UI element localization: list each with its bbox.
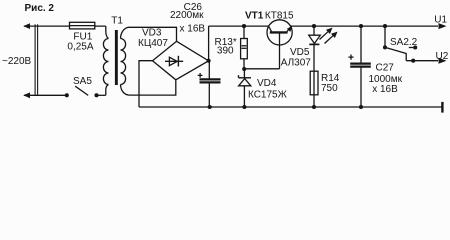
node R14 ground — [312, 105, 316, 109]
wire bridge minus to ground rail — [139, 61, 153, 107]
output U2 arrow — [439, 58, 447, 64]
wire secondary bottom to bridge — [129, 80, 176, 95]
svg-text:VT1: VT1 — [245, 10, 264, 21]
svg-text:U1: U1 — [434, 14, 447, 25]
svg-text:750: 750 — [321, 83, 338, 94]
node R13 VD4 base — [242, 67, 246, 71]
svg-text:АЛ307: АЛ307 — [281, 57, 312, 68]
svg-text:Рис. 2: Рис. 2 — [25, 3, 55, 14]
svg-text:КС175Ж: КС175Ж — [248, 90, 288, 101]
VT1 emitter arrow — [287, 26, 293, 32]
mains input arrow top — [23, 23, 30, 29]
fuse FU1 — [70, 22, 95, 29]
svg-text:T1: T1 — [111, 15, 123, 26]
wire base node — [244, 68, 280, 70]
resistor R14 — [310, 71, 318, 95]
svg-text:390: 390 — [217, 46, 234, 57]
svg-text:0,25А: 0,25А — [67, 42, 93, 53]
svg-text:C27: C27 — [376, 63, 395, 74]
transformer T1 core — [115, 30, 118, 85]
wire secondary top to bridge — [129, 27, 177, 41]
transformer T1 primary winding — [106, 26, 109, 38]
svg-text:х 16В: х 16В — [180, 24, 206, 35]
plus sign C27 — [348, 55, 353, 60]
svg-text:~220В: ~220В — [2, 56, 32, 67]
mains connector double line — [34, 24, 36, 95]
resistor R13 — [242, 24, 246, 28]
bridge rectifier VD3 — [153, 41, 209, 80]
wire top rail left — [209, 25, 269, 27]
wire to U2 — [406, 60, 438, 62]
LED arrows — [320, 30, 330, 39]
wire mains top — [24, 25, 106, 27]
svg-text:х 16В: х 16В — [372, 84, 398, 95]
node C26 ground — [208, 105, 212, 109]
svg-text:VD4: VD4 — [257, 78, 277, 89]
svg-text:КЦ407: КЦ407 — [138, 38, 168, 49]
wire mains bottom — [24, 94, 67, 96]
svg-text:VD3: VD3 — [142, 28, 162, 39]
svg-text:U2: U2 — [436, 51, 449, 62]
output U1 arrow — [439, 23, 447, 29]
plus sign C26 — [198, 73, 203, 78]
node VD4 ground — [242, 105, 246, 109]
node bridge plus — [207, 59, 211, 63]
switch SA2.2 — [383, 24, 387, 28]
wire SA5 to transformer — [97, 94, 106, 96]
svg-text:SA5: SA5 — [73, 76, 92, 87]
capacitor C26 — [208, 61, 210, 80]
wire top rail right — [291, 25, 438, 27]
svg-text:2200мк: 2200мк — [170, 10, 204, 21]
capacitor C27 — [359, 24, 363, 28]
ground rail end terminal — [441, 102, 443, 113]
ground rail — [139, 106, 442, 108]
zener diode VD4 — [243, 69, 245, 78]
svg-text:SA2.2: SA2.2 — [390, 37, 418, 48]
transistor VT1 — [267, 20, 292, 45]
transformer T1 secondary winding — [121, 39, 126, 85]
mains input arrow bottom — [23, 92, 30, 98]
bridge diode symbol — [165, 60, 183, 62]
svg-text:КТ815: КТ815 — [265, 10, 294, 21]
wire VT1 base lead — [279, 33, 281, 68]
wire bridge plus up — [208, 26, 210, 61]
switch SA5 — [65, 93, 69, 97]
LED VD5 — [312, 24, 316, 28]
